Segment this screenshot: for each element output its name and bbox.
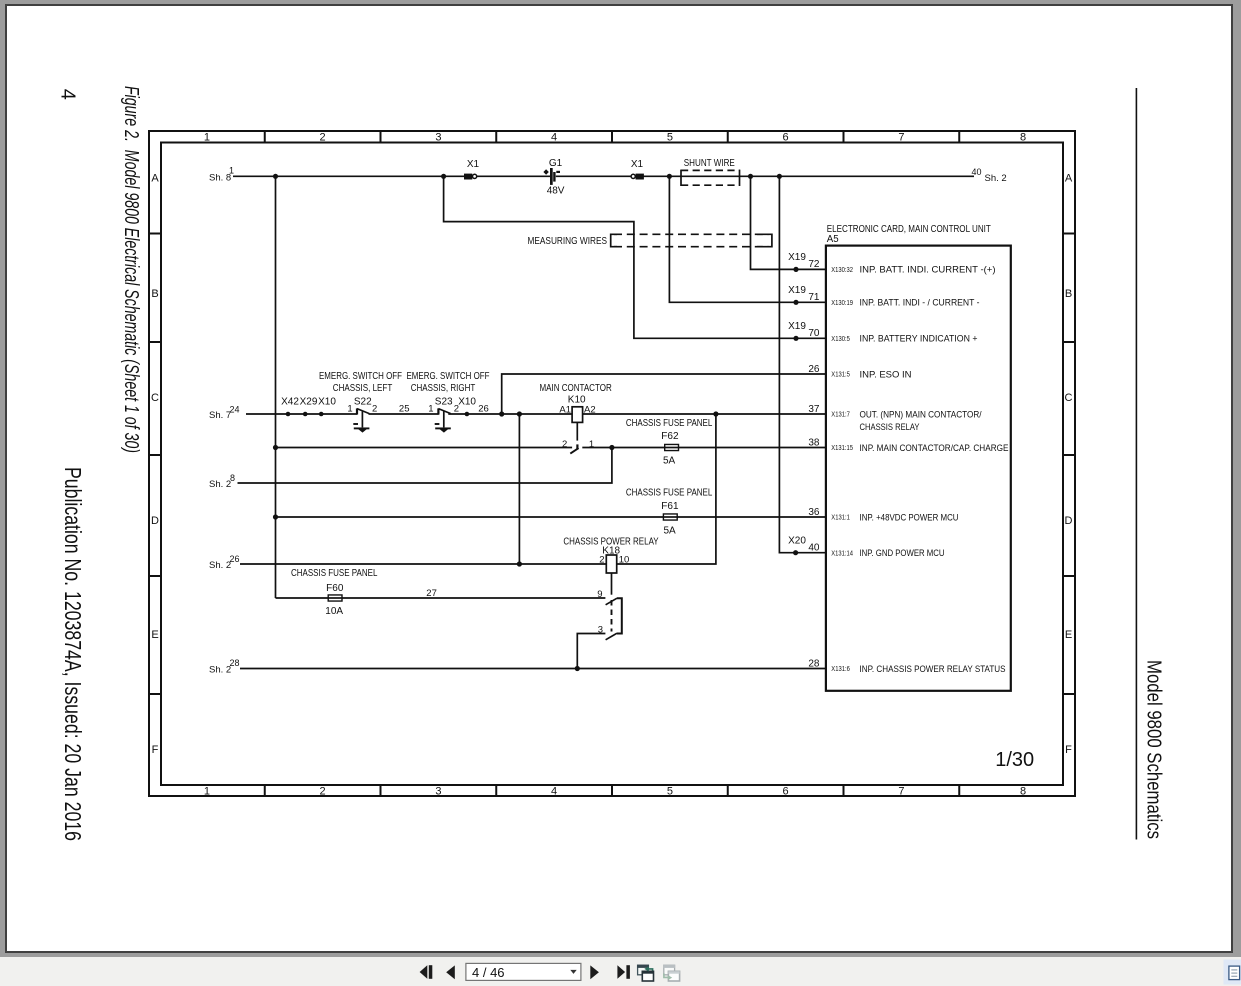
svg-text:26: 26 bbox=[808, 364, 820, 375]
svg-text:Sh. 2: Sh. 2 bbox=[985, 173, 1007, 184]
svg-text:X130:5: X130:5 bbox=[831, 336, 850, 343]
svg-text:G1: G1 bbox=[549, 158, 563, 169]
svg-text:E: E bbox=[1065, 629, 1072, 641]
svg-text:A1: A1 bbox=[559, 404, 571, 415]
wire: K10 contact row to X131:15 (row 38) bbox=[276, 447, 826, 449]
svg-text:36: 36 bbox=[808, 507, 820, 518]
svg-text:4 / 46: 4 / 46 bbox=[472, 965, 505, 980]
svg-text:5A: 5A bbox=[663, 456, 676, 467]
wire: ESO row from switch chain up to X131:5 bbox=[502, 374, 826, 414]
svg-text:28: 28 bbox=[230, 658, 240, 668]
svg-text:MEASURING WIRES: MEASURING WIRES bbox=[528, 236, 608, 247]
schematic outer border frame bbox=[149, 131, 1075, 796]
svg-text:9: 9 bbox=[597, 589, 602, 600]
coil K18 bbox=[606, 555, 616, 573]
junction dots bbox=[273, 174, 782, 671]
card pin X131:5 wire 26 bbox=[808, 364, 911, 381]
frame column numbers bottom bbox=[204, 785, 1026, 797]
svg-text:CHASSIS, LEFT: CHASSIS, LEFT bbox=[333, 383, 393, 394]
chassis power relay K18 labels bbox=[563, 536, 659, 556]
svg-text:INP. GND POWER MCU: INP. GND POWER MCU bbox=[860, 548, 945, 559]
svg-text:F: F bbox=[1065, 744, 1072, 756]
schematic inner border frame bbox=[161, 143, 1063, 786]
svg-text:CHASSIS FUSE PANEL: CHASSIS FUSE PANEL bbox=[291, 568, 378, 579]
electronic card A5 main control unit box bbox=[826, 246, 1011, 691]
connector X1 (left) bbox=[464, 159, 480, 180]
measuring wires dashed box bbox=[611, 234, 772, 246]
wire: main row to X19:70 battery indication + (L shaped) bbox=[444, 176, 826, 338]
card pin X130:32 wire 72 bbox=[788, 252, 995, 276]
svg-text:D: D bbox=[1065, 515, 1073, 527]
svg-text:X131:1: X131:1 bbox=[831, 515, 850, 522]
frame row letters left bbox=[151, 173, 159, 757]
svg-text:7: 7 bbox=[898, 131, 904, 143]
toolbar: first-page button bbox=[420, 965, 433, 979]
svg-text:EMERG. SWITCH OFF: EMERG. SWITCH OFF bbox=[319, 371, 402, 382]
electronic card header labels bbox=[827, 224, 991, 245]
connector X1 (right) bbox=[631, 159, 644, 180]
switch S23 (emergency switch off chassis right) bbox=[435, 408, 451, 432]
main contactor K10 labels bbox=[539, 383, 611, 406]
net label Sh.2 wire 40 (right end of main row) bbox=[971, 167, 1006, 184]
svg-text:C: C bbox=[151, 392, 159, 404]
svg-text:2: 2 bbox=[562, 439, 567, 450]
svg-text:24: 24 bbox=[230, 404, 240, 414]
wire: F61 row to X131:1 (row 36) bbox=[276, 516, 826, 518]
K18 changeover contact 9/3 bbox=[606, 598, 622, 640]
wire: F60 row (27) to K18 contact pin 9 bbox=[276, 597, 606, 599]
svg-text:X130:32: X130:32 bbox=[831, 267, 853, 274]
frame row ticks left bbox=[149, 234, 161, 695]
frame column numbers top bbox=[204, 131, 1026, 143]
svg-text:X131:6: X131:6 bbox=[831, 666, 850, 673]
svg-text:INP. BATT. INDI - / CURRENT -: INP. BATT. INDI - / CURRENT - bbox=[860, 298, 980, 309]
svg-text:S22: S22 bbox=[354, 397, 372, 408]
toolbar background bbox=[0, 957, 1241, 986]
right header rule bbox=[1135, 88, 1137, 840]
toolbar: page number combobox bbox=[466, 963, 581, 980]
svg-text:X10: X10 bbox=[318, 397, 336, 408]
svg-text:Sh. 2: Sh. 2 bbox=[209, 560, 231, 571]
svg-text:CHASSIS, RIGHT: CHASSIS, RIGHT bbox=[411, 383, 476, 394]
svg-text:25: 25 bbox=[399, 404, 410, 415]
svg-text:Figure 2. Model 9800 Electric: Figure 2. Model 9800 Electrical Schemati… bbox=[120, 86, 142, 453]
coil K10 bbox=[572, 407, 583, 423]
svg-text:INP. MAIN CONTACTOR/CAP. CHARG: INP. MAIN CONTACTOR/CAP. CHARGE bbox=[860, 443, 1009, 454]
frame row letters right bbox=[1065, 173, 1073, 757]
svg-text:48V: 48V bbox=[547, 186, 565, 197]
toolbar: next-view icon (disabled) bbox=[663, 965, 679, 981]
svg-text:4: 4 bbox=[551, 131, 557, 143]
svg-text:C: C bbox=[1065, 392, 1073, 404]
svg-text:71: 71 bbox=[808, 292, 820, 303]
svg-text:INP. ESO IN: INP. ESO IN bbox=[860, 369, 912, 380]
svg-text:1: 1 bbox=[428, 404, 433, 415]
svg-text:10A: 10A bbox=[325, 606, 343, 617]
svg-text:6: 6 bbox=[783, 131, 789, 143]
svg-text:5: 5 bbox=[667, 131, 673, 143]
wire: Sh.2-8 row to K10 contact bbox=[238, 448, 612, 484]
svg-text:3: 3 bbox=[598, 625, 603, 636]
card pin X131:1 wire 36 bbox=[808, 507, 958, 524]
chassis fuse panel F61 labels bbox=[626, 488, 713, 537]
svg-text:6: 6 bbox=[783, 785, 789, 797]
emergency switch S22 labels bbox=[319, 371, 402, 407]
svg-text:38: 38 bbox=[808, 437, 820, 448]
svg-text:1: 1 bbox=[204, 131, 210, 143]
svg-text:CHASSIS FUSE PANEL: CHASSIS FUSE PANEL bbox=[626, 418, 713, 429]
svg-text:X19: X19 bbox=[788, 252, 806, 263]
svg-text:OUT. (NPN) MAIN CONTACTOR/: OUT. (NPN) MAIN CONTACTOR/ bbox=[860, 409, 982, 420]
svg-text:70: 70 bbox=[808, 328, 820, 339]
chassis fuse panel F62 labels bbox=[626, 418, 713, 467]
svg-text:8: 8 bbox=[1020, 785, 1026, 797]
svg-text:8: 8 bbox=[1020, 131, 1026, 143]
wire: Sh.2-26 row to K18 coil pin 2 bbox=[240, 563, 606, 565]
net label Sh.2 wire 28 bbox=[209, 658, 240, 675]
wire: Sh.7-24 switch row to K10 coil and X131:7 (row 37) bbox=[246, 413, 826, 415]
svg-text:ELECTRONIC CARD, MAIN CONTROL: ELECTRONIC CARD, MAIN CONTROL UNIT bbox=[827, 224, 991, 235]
wire: vertical from main row down to F60 row (x=275.5) bbox=[275, 176, 277, 598]
K10 coil to contact link bbox=[576, 422, 578, 440]
switch S22 (emergency switch off chassis left) bbox=[353, 408, 369, 432]
card pin X131:7 wire 37 bbox=[808, 404, 981, 421]
card pin X131:14 wire 40 bbox=[788, 535, 944, 559]
net label Sh.2 wire 8 bbox=[209, 473, 235, 490]
svg-text:X131:7: X131:7 bbox=[831, 412, 850, 419]
net label Sh.2 wire 26 bbox=[209, 554, 240, 571]
svg-text:26: 26 bbox=[230, 554, 240, 564]
svg-text:X10: X10 bbox=[458, 397, 476, 408]
svg-text:CHASSIS FUSE PANEL: CHASSIS FUSE PANEL bbox=[626, 488, 713, 499]
svg-text:EMERG. SWITCH OFF: EMERG. SWITCH OFF bbox=[407, 371, 490, 382]
wire: main row to X19:71 current - bbox=[669, 176, 826, 302]
wire: vertical S-row to Sh.2-26 row (x=519.4) bbox=[518, 414, 520, 564]
svg-text:INP. +48VDC POWER MCU: INP. +48VDC POWER MCU bbox=[860, 512, 959, 523]
svg-text:A2: A2 bbox=[584, 404, 596, 415]
svg-text:8: 8 bbox=[230, 473, 235, 483]
svg-text:A: A bbox=[151, 173, 159, 185]
svg-text:1: 1 bbox=[204, 785, 210, 797]
toolbar: previous-view icon bbox=[637, 965, 653, 981]
svg-text:Sh. 7: Sh. 7 bbox=[209, 410, 231, 421]
battery G1 48V bbox=[543, 158, 564, 197]
connector dots X42 X29 X10 and X10 bbox=[286, 412, 470, 417]
svg-text:X29: X29 bbox=[300, 397, 318, 408]
svg-text:40: 40 bbox=[971, 167, 981, 177]
svg-text:CHASSIS RELAY: CHASSIS RELAY bbox=[860, 422, 920, 433]
card pin X130:19 wire 71 bbox=[788, 285, 979, 309]
svg-text:28: 28 bbox=[808, 658, 820, 669]
svg-text:40: 40 bbox=[808, 543, 820, 554]
fuse F62 5A bbox=[665, 444, 679, 450]
toolbar: last-page button bbox=[617, 965, 630, 979]
svg-text:X20: X20 bbox=[788, 535, 806, 546]
svg-text:X131:15: X131:15 bbox=[831, 445, 853, 452]
svg-text:B: B bbox=[1065, 288, 1072, 300]
K18 coil stem bbox=[611, 573, 613, 595]
card pin X130:5 wire 70 bbox=[788, 321, 978, 345]
svg-text:2: 2 bbox=[599, 555, 604, 566]
svg-text:X1: X1 bbox=[467, 159, 480, 170]
svg-text:X131:14: X131:14 bbox=[831, 550, 853, 557]
svg-text:2: 2 bbox=[454, 404, 459, 415]
svg-text:5A: 5A bbox=[663, 526, 676, 537]
svg-text:F60: F60 bbox=[326, 583, 344, 594]
svg-text:1: 1 bbox=[347, 404, 352, 415]
svg-text:27: 27 bbox=[426, 588, 437, 599]
toolbar: previous-page button bbox=[446, 965, 455, 979]
frame column ticks bottom bbox=[265, 785, 960, 796]
svg-text:X19: X19 bbox=[788, 321, 806, 332]
svg-text:F62: F62 bbox=[661, 431, 679, 442]
toolbar: next-page button bbox=[590, 965, 599, 979]
svg-text:X131:5: X131:5 bbox=[831, 372, 850, 379]
frame row ticks right bbox=[1063, 234, 1075, 695]
shunt wire dashed box bbox=[681, 170, 740, 186]
svg-text:F: F bbox=[152, 744, 159, 756]
wire: main row to X20:40 GND power MCU bbox=[779, 176, 826, 552]
svg-text:1: 1 bbox=[589, 439, 594, 450]
frame column ticks top bbox=[265, 131, 960, 143]
svg-text:4: 4 bbox=[551, 785, 557, 797]
svg-text:37: 37 bbox=[808, 404, 820, 415]
connector pin dots X19/X20 bbox=[793, 267, 799, 556]
svg-text:INP. BATT. INDI. CURRENT -(+): INP. BATT. INDI. CURRENT -(+) bbox=[860, 265, 996, 276]
fuse F60 10A bbox=[328, 595, 342, 601]
svg-text:2: 2 bbox=[320, 785, 326, 797]
svg-text:5: 5 bbox=[667, 785, 673, 797]
svg-text:7: 7 bbox=[898, 785, 904, 797]
svg-text:Publication No. 1203874A, Issu: Publication No. 1203874A, Issued: 20 Jan… bbox=[60, 467, 86, 841]
K18 actuator dashed link bbox=[611, 600, 613, 632]
svg-text:INP. CHASSIS POWER RELAY STATU: INP. CHASSIS POWER RELAY STATUS bbox=[860, 664, 1006, 675]
connector labels X42 X29 X10 bbox=[281, 397, 336, 408]
svg-text:10: 10 bbox=[619, 555, 630, 566]
svg-text:B: B bbox=[151, 288, 158, 300]
card pin X131:6 wire 28 bbox=[808, 658, 1005, 675]
svg-text:Sh. 2: Sh. 2 bbox=[209, 479, 231, 490]
svg-text:X130:19: X130:19 bbox=[831, 300, 853, 307]
svg-text:72: 72 bbox=[808, 259, 820, 270]
svg-text:E: E bbox=[151, 629, 158, 641]
svg-text:1: 1 bbox=[229, 165, 234, 175]
svg-text:2: 2 bbox=[320, 131, 326, 143]
scrollbar corner document icon bbox=[1224, 960, 1241, 985]
svg-text:26: 26 bbox=[478, 404, 489, 415]
svg-text:D: D bbox=[151, 515, 159, 527]
svg-text:2: 2 bbox=[372, 404, 377, 415]
fuse F61 5A bbox=[663, 514, 677, 520]
net label Sh.8 wire 1 bbox=[209, 165, 234, 183]
wire: K18 coil pin 10 to row 37 riser bbox=[617, 414, 716, 564]
svg-text:INP. BATTERY INDICATION +: INP. BATTERY INDICATION + bbox=[860, 334, 978, 345]
svg-text:X1: X1 bbox=[631, 159, 644, 170]
svg-text:Sh. 8: Sh. 8 bbox=[209, 172, 231, 183]
wire: main row to X19:72 current -(+) bbox=[751, 176, 826, 269]
svg-text:Model 9800 Schematics: Model 9800 Schematics bbox=[1143, 660, 1165, 839]
wire: Sh.2-28 row to X131:6 bbox=[240, 668, 826, 670]
K10 contact (row 38) bbox=[570, 444, 578, 453]
wire: main battery row Sh.8-1 to Sh.2-40 (row A) bbox=[233, 175, 974, 177]
net label Sh.7 wire 24 bbox=[209, 404, 240, 421]
wire: K18 contact pin 3 down to Sh.2-28 row bbox=[577, 634, 605, 669]
svg-text:A: A bbox=[1065, 173, 1073, 185]
svg-text:S23: S23 bbox=[435, 397, 453, 408]
emergency switch S23 labels bbox=[407, 371, 490, 407]
svg-text:1/30: 1/30 bbox=[995, 749, 1034, 771]
svg-text:Sh. 2: Sh. 2 bbox=[209, 665, 231, 676]
svg-text:X42: X42 bbox=[281, 397, 299, 408]
svg-text:SHUNT WIRE: SHUNT WIRE bbox=[684, 158, 735, 169]
svg-text:3: 3 bbox=[435, 131, 441, 143]
svg-text:4: 4 bbox=[57, 89, 79, 100]
card pin X131:15 wire 38 bbox=[808, 437, 1008, 454]
svg-text:3: 3 bbox=[435, 785, 441, 797]
svg-text:MAIN CONTACTOR: MAIN CONTACTOR bbox=[539, 383, 611, 394]
chassis fuse panel F60 labels bbox=[291, 568, 378, 617]
svg-text:X19: X19 bbox=[788, 285, 806, 296]
svg-text:F61: F61 bbox=[661, 501, 679, 512]
svg-text:A5: A5 bbox=[827, 234, 839, 245]
